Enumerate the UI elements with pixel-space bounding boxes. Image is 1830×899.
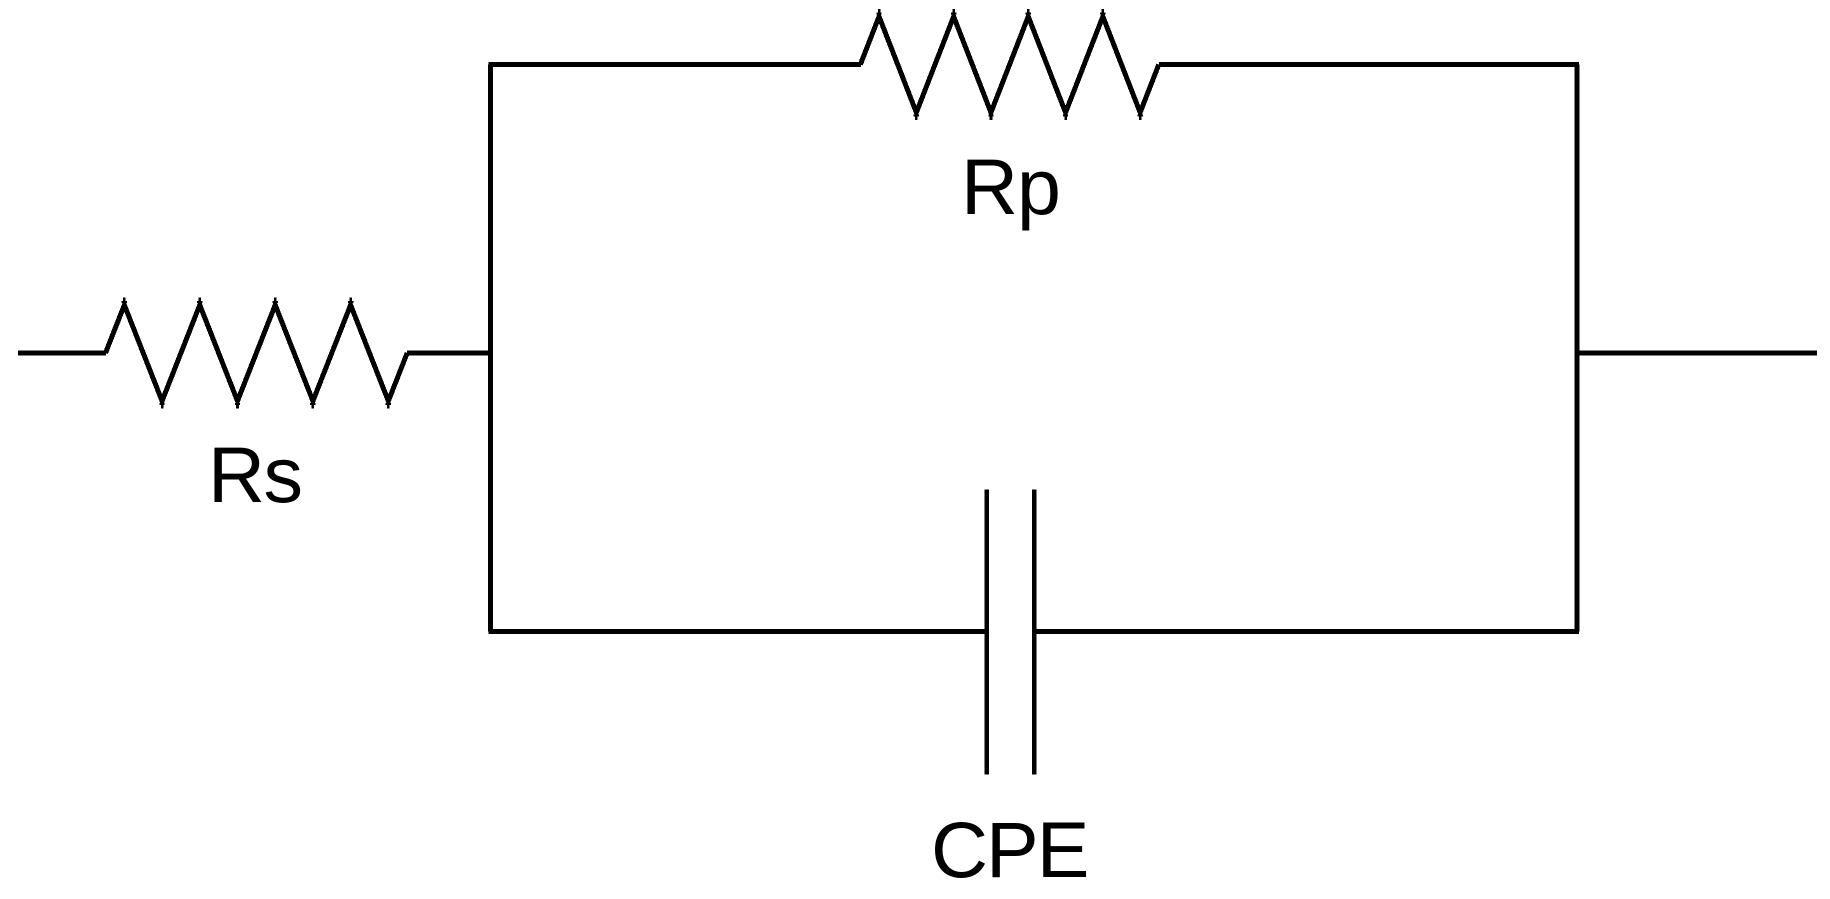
wire left rail	[488, 65, 493, 632]
svg-text:Rp: Rp	[961, 142, 1060, 231]
wire top right segment	[1159, 62, 1579, 67]
resistor Rp	[860, 9, 1158, 120]
wire bottom right segment	[1034, 629, 1579, 634]
svg-text:Rs: Rs	[208, 430, 302, 519]
wire Rs to left rail	[407, 351, 491, 356]
wire left lead	[18, 351, 106, 356]
wire right rail	[1574, 65, 1579, 632]
wire top left segment	[488, 62, 861, 67]
resistor Rs	[106, 298, 408, 409]
wire right lead	[1577, 351, 1817, 356]
capacitor CPE	[987, 490, 1034, 775]
svg-text:CPE: CPE	[931, 805, 1087, 894]
wire bottom left segment	[488, 629, 986, 634]
